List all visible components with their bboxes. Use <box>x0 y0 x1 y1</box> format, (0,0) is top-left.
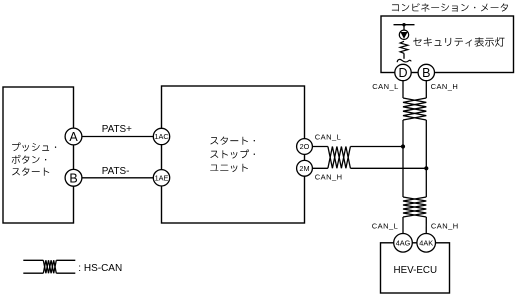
box: HEV-ECU <box>381 243 450 293</box>
connector pin 1AC <box>153 128 169 144</box>
wire CAN_L (2O to bus) <box>305 146 328 148</box>
svg-text:4AK: 4AK <box>419 238 433 247</box>
svg-text:PATS-: PATS- <box>102 166 130 177</box>
svg-text:HEV-ECU: HEV-ECU <box>394 265 438 276</box>
connector pin B <box>65 169 82 186</box>
svg-text:CAN_L: CAN_L <box>315 133 341 142</box>
wire CAN_H (2M to bus) <box>305 167 328 169</box>
box: combination meter <box>381 16 514 73</box>
svg-text:B: B <box>69 171 77 185</box>
connector pin 4AG <box>394 234 413 253</box>
label combination meter (title) <box>392 3 508 12</box>
svg-text:CAN_H: CAN_H <box>431 222 459 231</box>
legend twisted pair symbol <box>43 260 56 273</box>
svg-text:4AG: 4AG <box>396 238 411 247</box>
svg-text:CAN_H: CAN_H <box>431 82 459 91</box>
svg-text:2M: 2M <box>299 164 309 173</box>
wire resistor to curl <box>403 53 405 59</box>
wire dot to lamp <box>403 25 405 31</box>
box: push button start unit <box>3 87 74 223</box>
svg-text:: HS-CAN: : HS-CAN <box>78 263 122 274</box>
wire CAN_H bus middle <box>425 120 427 197</box>
wire CAN_L continuation to left bus <box>350 146 403 148</box>
twisted pair (lower bus) <box>403 197 426 217</box>
connector pin A <box>65 128 82 145</box>
junction dot CAN_H <box>424 166 428 170</box>
twisted pair (2O/2M wires) <box>328 147 351 169</box>
connector pin 4AK <box>417 234 436 253</box>
wire PATS+ (A to 1AC) <box>74 136 162 138</box>
twisted pair (upper bus) <box>403 98 426 120</box>
wire CAN_H bus (from B) <box>425 73 427 99</box>
svg-text:CAN_L: CAN_L <box>372 82 398 91</box>
resistor (lamp) <box>400 41 408 53</box>
label push button start <box>12 143 57 176</box>
security indicator lamp <box>399 30 408 39</box>
label security indicator <box>413 37 504 46</box>
wire CAN_L bus (from D) <box>402 73 404 99</box>
connector pin 2O <box>297 139 313 155</box>
connector pin 1AE <box>153 170 169 186</box>
connector pin B (meter) <box>418 64 434 80</box>
svg-text:1AE: 1AE <box>155 173 169 182</box>
junction dot lamp <box>402 23 405 26</box>
connector pin 2M <box>297 160 313 176</box>
svg-text:PATS+: PATS+ <box>102 124 132 135</box>
wire CAN_L bus middle <box>402 120 404 197</box>
svg-text:1AC: 1AC <box>154 132 168 141</box>
lamp feed bar <box>394 24 415 26</box>
svg-text:D: D <box>398 66 407 80</box>
wire curl <box>397 59 411 62</box>
svg-text:CAN_L: CAN_L <box>372 222 398 231</box>
svg-text:2O: 2O <box>300 142 310 151</box>
legend twisted-pair rails <box>23 260 75 273</box>
wire CAN_L bus to 4AG <box>402 217 404 243</box>
svg-text:A: A <box>69 130 78 144</box>
connector pin D <box>395 64 411 80</box>
junction dot CAN_L <box>401 144 405 148</box>
label start stop unit <box>210 137 255 173</box>
wire PATS- (B to 1AE) <box>74 177 162 179</box>
svg-text:CAN_H: CAN_H <box>315 173 343 182</box>
wire CAN_H continuation to right bus <box>350 167 426 169</box>
svg-text:B: B <box>422 66 430 80</box>
box: start stop unit <box>162 86 305 223</box>
wire CAN_H bus to 4AK <box>425 217 427 243</box>
